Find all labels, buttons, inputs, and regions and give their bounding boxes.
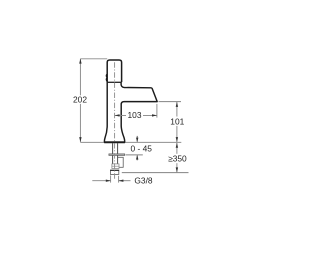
svg-text:103: 103 bbox=[128, 110, 142, 120]
svg-text:101: 101 bbox=[170, 116, 184, 126]
svg-text:0 - 45: 0 - 45 bbox=[130, 143, 152, 153]
svg-text:G3/8: G3/8 bbox=[134, 176, 152, 186]
svg-text:≥350: ≥350 bbox=[168, 154, 187, 164]
svg-text:202: 202 bbox=[73, 94, 87, 104]
